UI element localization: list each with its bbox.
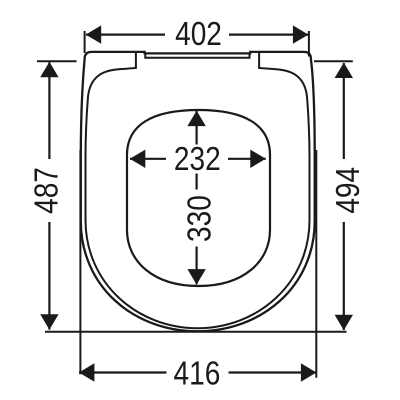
bottom reference baseline	[45, 331, 347, 333]
svg-text:232: 232	[174, 141, 221, 178]
svg-text:494: 494	[330, 167, 367, 214]
outer contour of toilet seat lid	[81, 52, 315, 331]
dimension line 494	[343, 63, 345, 330]
svg-text:402: 402	[175, 16, 222, 53]
dimension line 402	[86, 33, 309, 35]
reference line 494 top	[314, 60, 353, 62]
extension line 402 left	[84, 31, 86, 53]
arrowhead 487 bottom	[40, 314, 58, 330]
arrowhead 487 top	[40, 62, 58, 78]
arrowhead 402 left	[86, 25, 102, 43]
arrowhead 416 right	[301, 363, 317, 381]
svg-text:330: 330	[181, 195, 218, 242]
arrowhead 330 top	[187, 111, 205, 127]
arrowhead 402 right	[293, 25, 309, 43]
dimension line 416	[79, 371, 316, 373]
arrowhead 232 left	[130, 150, 146, 168]
reference line 487 top	[37, 60, 77, 62]
arrowhead 494 bottom	[335, 315, 353, 331]
arrowhead 330 bottom	[187, 269, 205, 285]
arrowhead 232 right	[250, 150, 265, 168]
dimension line 232	[130, 158, 266, 160]
dimension line 330	[196, 111, 198, 284]
extension line 416 left	[79, 150, 81, 374]
svg-text:487: 487	[29, 167, 66, 214]
extension line 416 right	[315, 150, 317, 378]
label gap masks	[165, 18, 229, 48]
arrowhead 494 top	[335, 63, 353, 79]
dimension line 487	[48, 62, 50, 329]
arrowhead 416 left	[79, 363, 95, 381]
inner contour (lid edge and hinge cap boundaries)	[86, 53, 310, 329]
seat opening oval	[127, 110, 270, 286]
hinge recess slot line at top center	[145, 54, 249, 58]
extension line 402 right	[308, 31, 310, 57]
svg-text:416: 416	[174, 355, 221, 392]
